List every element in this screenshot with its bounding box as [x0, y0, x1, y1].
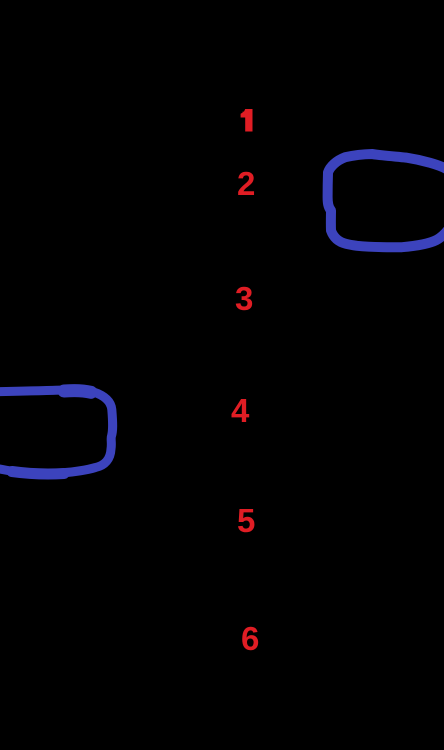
- annotation number 3: [235, 282, 253, 315]
- annotation number 2: [237, 167, 255, 200]
- annotation number 6: [241, 622, 259, 655]
- blue hand-drawn oval, middle left (clipped at left edge): [0, 390, 113, 474]
- annotation number 4: [231, 394, 249, 427]
- thicker segment on bottom stroke of left oval: [12, 472, 64, 474]
- blue hand-drawn oval, top right (clipped at right edge): [328, 154, 444, 247]
- annotation number 1: [238, 108, 258, 134]
- thicker blob on top stroke of left oval: [64, 391, 91, 393]
- annotation number 5: [237, 504, 255, 537]
